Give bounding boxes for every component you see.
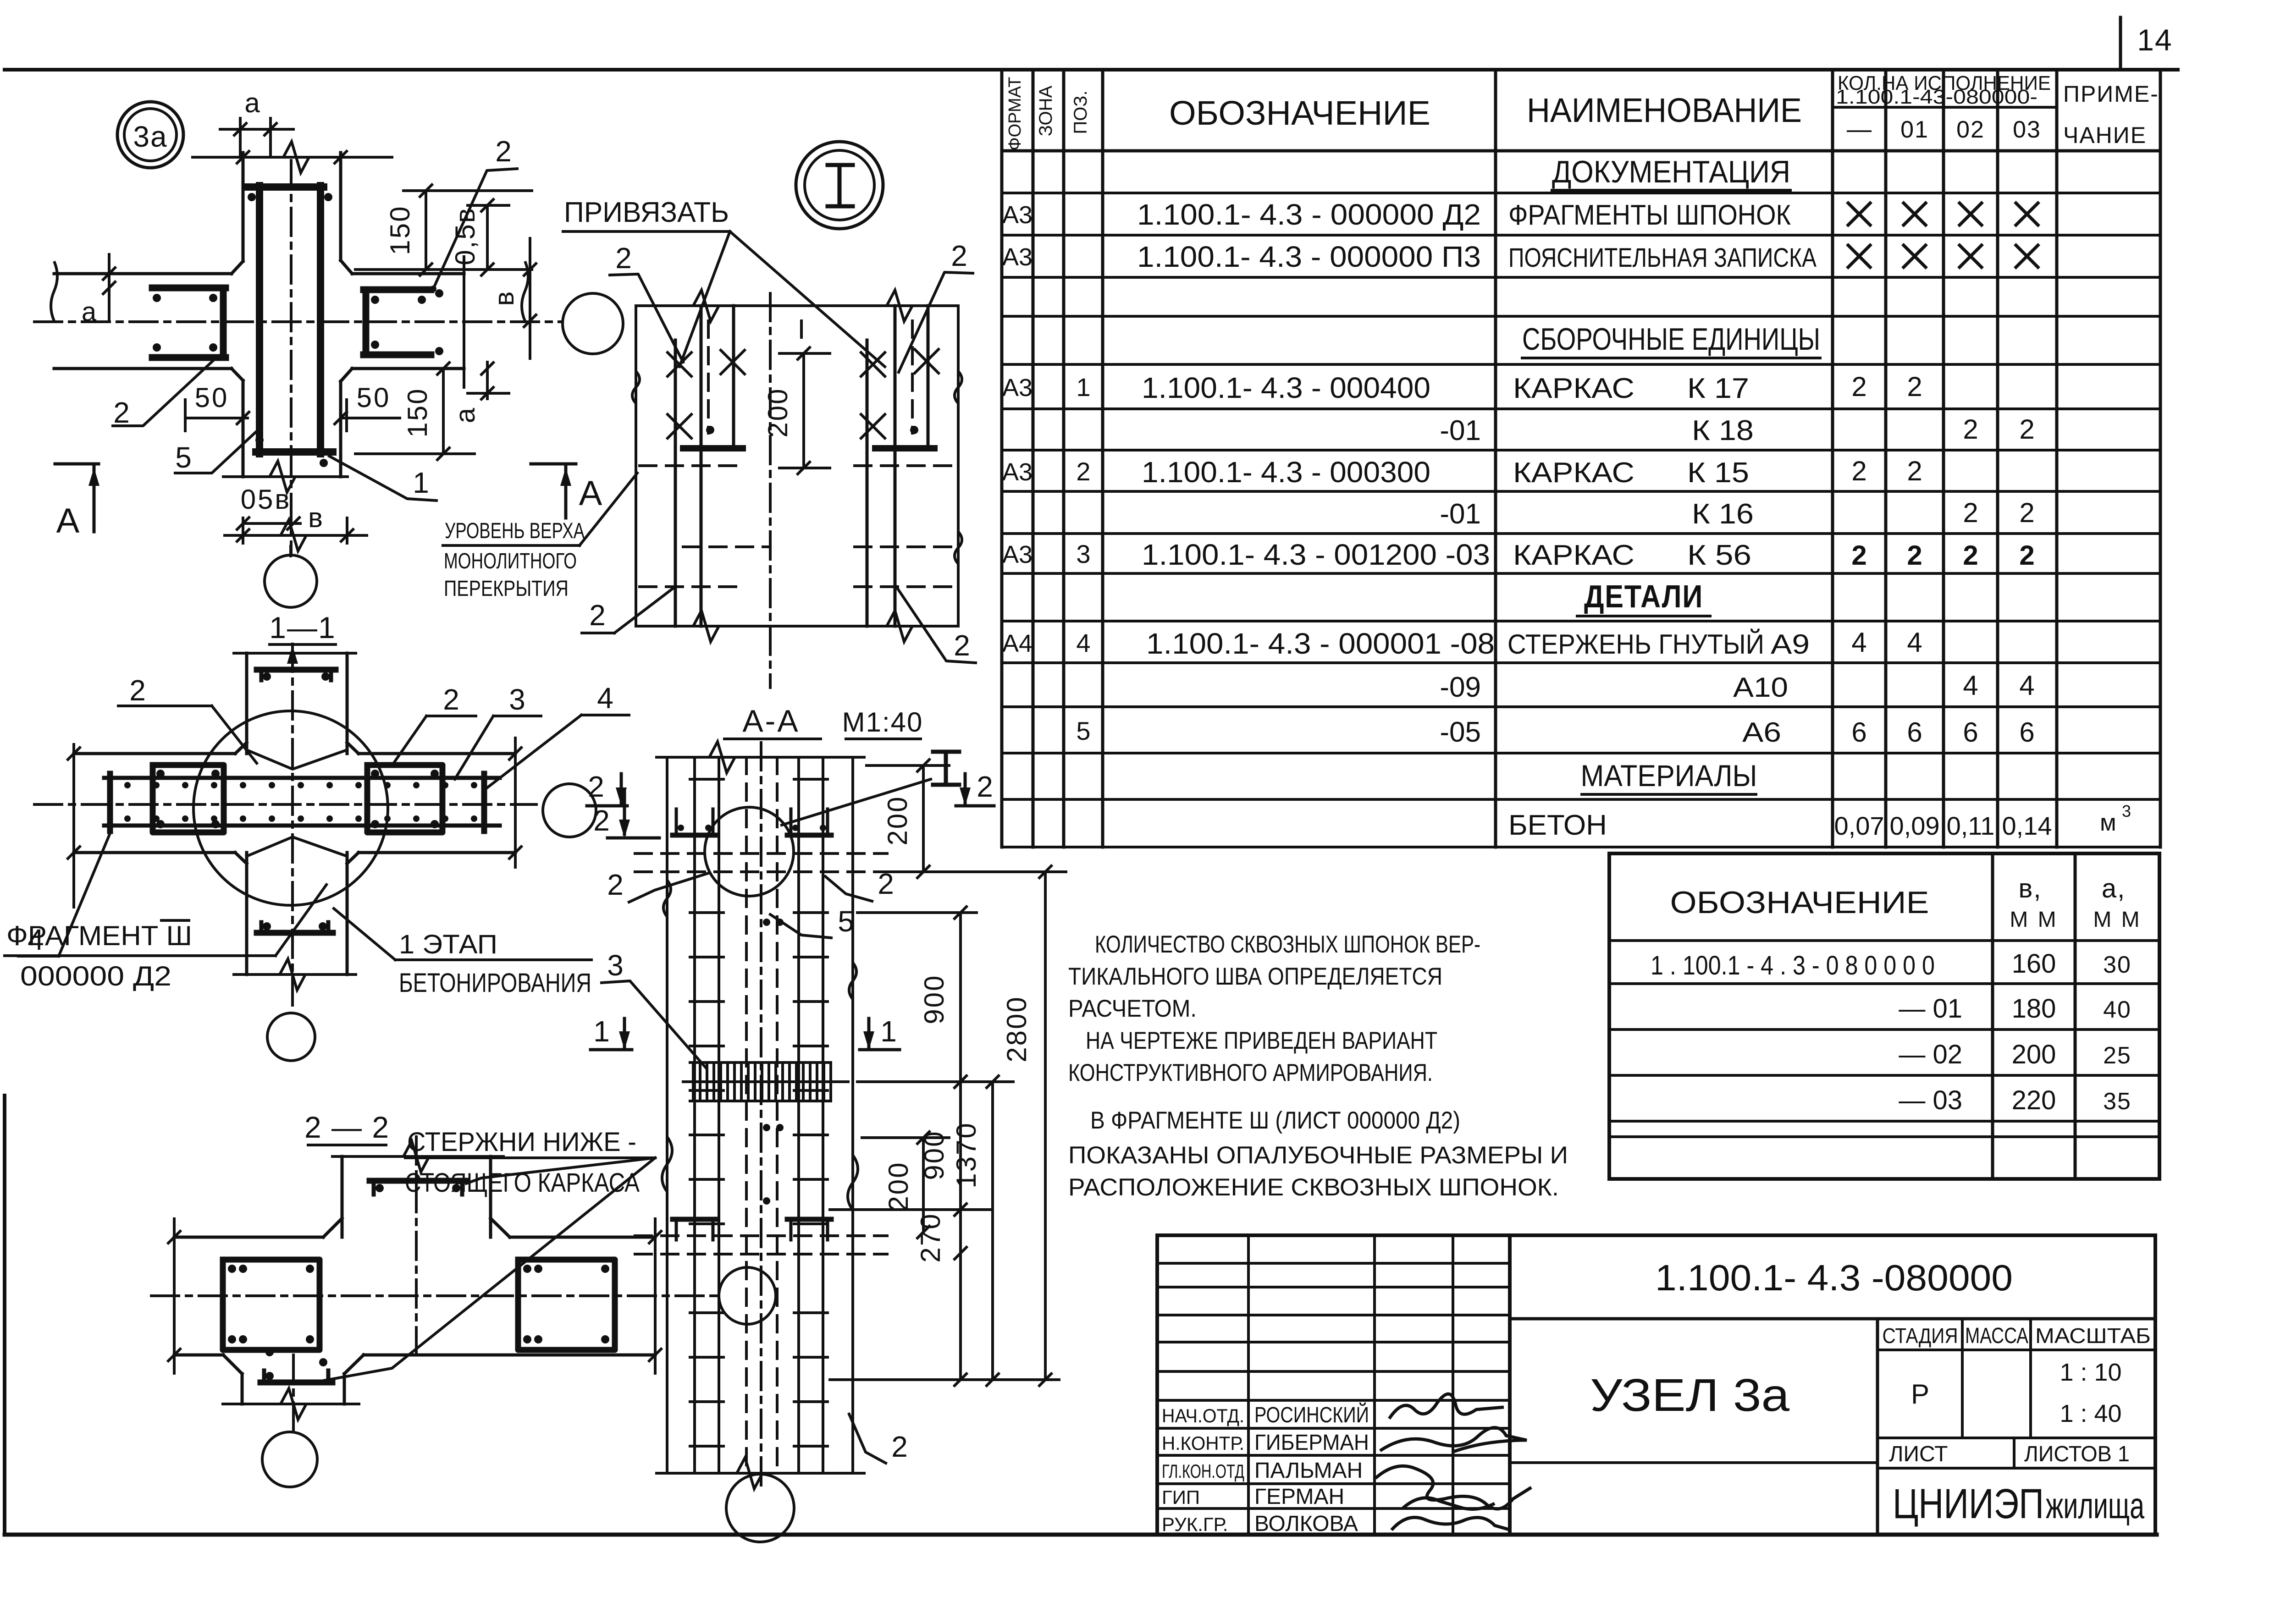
svg-text:6: 6 — [2019, 717, 2034, 748]
section 1-1 title — [269, 611, 336, 644]
svg-text:2: 2 — [951, 239, 967, 272]
spec table section titles — [1522, 154, 1820, 794]
dimension a left wall — [82, 254, 115, 327]
svg-text:А3: А3 — [1002, 458, 1033, 486]
svg-text:2: 2 — [588, 770, 604, 803]
section 1-1 left stirrup — [153, 765, 224, 832]
label I with leader — [782, 752, 959, 825]
svg-text:2: 2 — [589, 599, 606, 632]
svg-text:ВОЛКОВА: ВОЛКОВА — [1254, 1512, 1358, 1536]
svg-text:0,14: 0,14 — [2002, 811, 2052, 840]
svg-text:А-А: А-А — [742, 704, 800, 738]
central wall edges — [223, 153, 352, 492]
svg-text:270: 270 — [915, 1212, 946, 1262]
A-A dimension 1370 — [951, 1076, 1013, 1386]
svg-text:200: 200 — [882, 795, 913, 845]
svg-text:2: 2 — [2019, 540, 2034, 571]
spec table row: poyasnitelnaya zapiska — [1002, 240, 2038, 273]
svg-text:МАСШТАБ: МАСШТАБ — [2035, 1324, 2151, 1348]
svg-text:ЦНИИЭП: ЦНИИЭП — [1893, 1481, 2044, 1527]
svg-text:1.100.1- 4.3 - 001200 -03: 1.100.1- 4.3 - 001200 -03 — [1142, 538, 1490, 571]
axis bubble below 1-1 — [267, 1013, 315, 1061]
svg-text:1: 1 — [593, 1015, 610, 1048]
svg-text:150: 150 — [402, 387, 433, 437]
svg-text:А3: А3 — [1002, 541, 1033, 568]
fragment I right rebar group — [855, 306, 956, 626]
section 2-2 left stirrup — [223, 1260, 320, 1350]
svg-text:СБОРОЧНЫЕ ЕДИНИЦЫ: СБОРОЧНЫЕ ЕДИНИЦЫ — [1522, 322, 1820, 357]
svg-text:МОНОЛИТНОГО: МОНОЛИТНОГО — [444, 549, 577, 573]
dimension v right — [489, 238, 536, 358]
svg-text:2: 2 — [1907, 456, 1922, 486]
svg-text:2: 2 — [129, 674, 146, 707]
section mark 1 left of A-A — [591, 1015, 632, 1050]
svg-text:К 16: К 16 — [1692, 498, 1754, 530]
svg-text:Р: Р — [1911, 1379, 1929, 1409]
svg-text:3: 3 — [2122, 802, 2131, 820]
svg-text:1.100.1-43-080000-: 1.100.1-43-080000- — [1836, 86, 2038, 108]
svg-text:4: 4 — [2019, 670, 2034, 701]
A-A label 2 bottom leader — [849, 1414, 908, 1463]
svg-text:А4: А4 — [1002, 630, 1033, 657]
svg-text:3а: 3а — [133, 120, 167, 153]
svg-text:— 01: — 01 — [1899, 994, 1962, 1024]
svg-text:200: 200 — [883, 1161, 914, 1211]
svg-text:ОБОЗНАЧЕНИЕ: ОБОЗНАЧЕНИЕ — [1670, 885, 1929, 920]
sheet left border — [3, 1096, 6, 1535]
svg-text:2: 2 — [1851, 371, 1866, 402]
svg-text:КАРКАС: КАРКАС — [1513, 373, 1634, 404]
A-A mid rebar dots — [763, 919, 784, 1205]
parameter table row -02 — [1899, 1040, 2131, 1069]
svg-text:А3: А3 — [1002, 201, 1033, 229]
svg-text:А10: А10 — [1733, 672, 1788, 703]
svg-text:1—1: 1—1 — [269, 611, 336, 644]
svg-text:40: 40 — [2103, 996, 2131, 1023]
spec table grid — [1002, 70, 2160, 847]
label privyazat — [563, 197, 885, 367]
svg-text:ЧАНИЕ: ЧАНИЕ — [2063, 122, 2147, 148]
svg-text:160: 160 — [2012, 949, 2056, 979]
svg-text:2: 2 — [607, 868, 624, 901]
node bubble 3a — [117, 102, 183, 168]
dimension 50 right — [335, 382, 400, 431]
A-A dimension 270 lower — [830, 1212, 1059, 1386]
section 2-2 lower wall — [223, 1374, 359, 1420]
svg-text:а,: а, — [2102, 874, 2126, 903]
svg-text:50: 50 — [357, 382, 391, 413]
svg-text:2: 2 — [2019, 497, 2034, 528]
note paragraph about keys — [1068, 931, 1568, 1201]
svg-text:К 15: К 15 — [1687, 457, 1749, 489]
svg-text:05в: 05в — [241, 484, 292, 515]
A-A dimension 900 upper — [857, 907, 977, 1088]
svg-text:КАРКАС: КАРКАС — [1513, 457, 1634, 489]
svg-text:СТЕРЖЕНЬ ГНУТЫЙ: СТЕРЖЕНЬ ГНУТЫЙ — [1507, 629, 1764, 660]
axis bubble right — [563, 293, 623, 354]
svg-text:ФОРМАТ: ФОРМАТ — [1005, 77, 1025, 151]
A-A stirrup crossbars — [690, 779, 828, 1446]
section 2-2 title — [304, 1110, 390, 1145]
title block center-right grid — [1510, 1319, 2155, 1535]
svg-text:А: А — [56, 501, 80, 540]
dimension 0.5v right — [450, 199, 509, 275]
svg-text:1.100.1- 4.3 -080000: 1.100.1- 4.3 -080000 — [1655, 1257, 2013, 1298]
svg-text:5: 5 — [175, 441, 192, 474]
section 2-2 axes — [151, 1137, 718, 1431]
label 5 with leader — [175, 429, 260, 474]
svg-text:М1:40: М1:40 — [842, 707, 923, 738]
svg-text:-01: -01 — [1440, 415, 1481, 446]
section 1-1 axes — [34, 644, 536, 1011]
spec table row: A10 — [1440, 670, 2034, 703]
svg-text:в,: в, — [2019, 874, 2042, 903]
svg-text:150: 150 — [385, 205, 415, 255]
svg-text:0,11: 0,11 — [1947, 811, 1995, 840]
section 1-1 main bars — [104, 774, 500, 831]
A-A label 2 right upper — [825, 867, 894, 901]
section 2-2 right stirrup — [518, 1260, 615, 1350]
svg-text:в: в — [489, 290, 519, 306]
A-A dimension 2800 — [1001, 866, 1066, 1386]
parameter table row 080000 — [1651, 949, 2131, 980]
section 1-1 right stirrup — [367, 765, 442, 832]
svg-text:1370: 1370 — [951, 1122, 982, 1188]
svg-text:а: а — [450, 407, 480, 423]
sheet top border — [5, 68, 2178, 72]
svg-text:5: 5 — [838, 905, 854, 938]
svg-text:МАССА: МАССА — [1965, 1324, 2028, 1348]
svg-text:ПЕРЕКРЫТИЯ: ПЕРЕКРЫТИЯ — [444, 577, 569, 601]
svg-text:4: 4 — [1907, 627, 1922, 658]
section 2-2 upper cage — [370, 1181, 466, 1195]
svg-text:-05: -05 — [1440, 716, 1481, 748]
section A-A title — [724, 704, 923, 739]
svg-text:ДОКУМЕНТАЦИЯ: ДОКУМЕНТАЦИЯ — [1552, 154, 1790, 189]
svg-text:ГЕРМАН: ГЕРМАН — [1254, 1485, 1344, 1509]
axis bubble below A-A — [726, 1473, 794, 1542]
section 1-1 label 4 left — [18, 833, 110, 956]
spec table headers — [1005, 72, 2159, 150]
svg-text:жилища: жилища — [2046, 1485, 2144, 1526]
svg-text:А9: А9 — [1771, 629, 1810, 660]
svg-text:2: 2 — [954, 629, 970, 662]
dimension a top — [220, 88, 293, 156]
svg-text:К 18: К 18 — [1692, 415, 1754, 446]
svg-text:2: 2 — [1963, 414, 1978, 445]
spec table row: karkas K17 — [1002, 371, 1922, 404]
svg-text:ПРИМЕ-: ПРИМЕ- — [2063, 81, 2159, 107]
svg-text:РУК.ГР.: РУК.ГР. — [1162, 1514, 1228, 1535]
section mark 2 down right of 1-1 — [593, 789, 659, 838]
svg-text:25: 25 — [2103, 1042, 2131, 1069]
section 2-2 upper wall — [332, 1141, 503, 1237]
svg-text:2: 2 — [1963, 540, 1978, 571]
svg-text:01: 01 — [1900, 116, 1929, 143]
fragment I axis and slab dashes — [640, 293, 956, 688]
svg-text:РАСЧЕТОМ.: РАСЧЕТОМ. — [1068, 995, 1197, 1022]
dimension 058 bottom — [237, 484, 300, 529]
svg-text:СТАДИЯ: СТАДИЯ — [1883, 1324, 1958, 1348]
dimension 200 fragment I — [762, 347, 830, 474]
svg-text:-09: -09 — [1440, 672, 1481, 703]
svg-text:БЕТОН: БЕТОН — [1508, 809, 1607, 841]
svg-text:4: 4 — [1076, 628, 1090, 657]
parameter table row -01 — [1899, 994, 2131, 1024]
svg-text:4: 4 — [1963, 670, 1978, 701]
svg-text:6: 6 — [1851, 717, 1866, 748]
spec table row: A6 — [1076, 716, 2034, 748]
A-A dimension 200 top — [867, 760, 1064, 878]
fragment III circle — [193, 711, 388, 905]
svg-text:2: 2 — [891, 1430, 908, 1463]
svg-text:2: 2 — [615, 242, 632, 275]
svg-text:2: 2 — [1076, 457, 1090, 486]
svg-text:5: 5 — [1076, 716, 1090, 745]
spec table row: karkas K15 — [1002, 456, 1922, 489]
svg-text:НАИМЕНОВАНИЕ: НАИМЕНОВАНИЕ — [1527, 91, 1802, 129]
svg-text:а: а — [82, 297, 98, 327]
label 1 etap betonirovaniya — [334, 908, 591, 998]
svg-text:ПОЗ.: ПОЗ. — [1071, 90, 1091, 134]
title block stadia massa masshtab — [1883, 1324, 2151, 1427]
svg-text:6: 6 — [1907, 717, 1922, 748]
dimension v top with break — [193, 142, 392, 173]
section mark 2 top left of A-A — [587, 770, 627, 806]
svg-text:А6: А6 — [1742, 717, 1781, 748]
svg-text:в: в — [308, 502, 325, 533]
section 1-1 labels 2 3 4 top right — [392, 682, 629, 789]
title block list row — [1889, 1442, 2130, 1466]
section 1-1 horizontal wall — [68, 738, 521, 907]
svg-text:1: 1 — [413, 466, 429, 499]
svg-text:2: 2 — [1851, 540, 1866, 571]
svg-text:1 : 10: 1 : 10 — [2060, 1359, 2121, 1386]
section 1-1 top cage — [257, 670, 336, 681]
svg-text:МАТЕРИАЛЫ: МАТЕРИАЛЫ — [1581, 759, 1757, 793]
section mark A left — [55, 464, 99, 540]
svg-text:1.100.1- 4.3 - 000000 Д2: 1.100.1- 4.3 - 000000 Д2 — [1137, 198, 1481, 231]
fragment I left rebar group — [640, 306, 770, 626]
svg-text:ОБОЗНАЧЕНИЕ: ОБОЗНАЧЕНИЕ — [1169, 94, 1430, 132]
node bubble I — [796, 142, 883, 229]
label 1 with leader — [329, 456, 436, 501]
svg-text:А3: А3 — [1002, 243, 1033, 271]
A-A inner rebar verticals — [695, 743, 823, 1485]
label fragment III — [5, 885, 326, 991]
svg-text:2800: 2800 — [1001, 996, 1032, 1062]
svg-text:1 ЭТАП: 1 ЭТАП — [399, 930, 497, 959]
svg-text:0,09: 0,09 — [1890, 811, 1940, 840]
fragment I corner labels 2 — [582, 239, 976, 663]
A-A dimension 200 lower — [862, 1132, 949, 1238]
svg-text:35: 35 — [2103, 1088, 2131, 1115]
wall axis line — [34, 320, 563, 323]
label 2 top right with leader — [430, 135, 517, 292]
section 1-1 vertical wall upper — [234, 653, 356, 754]
spec table row: karkas K56 — [1002, 538, 2035, 571]
svg-text:К 17: К 17 — [1687, 373, 1749, 404]
dimension 150 bottom right — [355, 363, 475, 460]
svg-text:НАЧ.ОТД.: НАЧ.ОТД. — [1162, 1405, 1244, 1426]
svg-text:50: 50 — [195, 382, 229, 413]
svg-text:ПОКАЗАНЫ ОПАЛУБОЧНЫЕ РАЗМЕРЫ И: ПОКАЗАНЫ ОПАЛУБОЧНЫЕ РАЗМЕРЫ И — [1068, 1142, 1568, 1169]
signatures — [1375, 1394, 1531, 1530]
A-A dimension 900 lower — [830, 1082, 990, 1259]
svg-text:1.100.1- 4.3 - 000300: 1.100.1- 4.3 - 000300 — [1142, 456, 1430, 489]
A-A top joint hooks — [673, 809, 831, 835]
svg-text:м: м — [2100, 809, 2116, 836]
svg-text:КОНСТРУКТИВНОГО АРМИРОВАНИЯ.: КОНСТРУКТИВНОГО АРМИРОВАНИЯ. — [1068, 1059, 1433, 1086]
svg-text:а: а — [244, 88, 261, 118]
svg-text:КОЛИЧЕСТВО СКВОЗНЫХ ШПОНОК ВЕР: КОЛИЧЕСТВО СКВОЗНЫХ ШПОНОК ВЕР- — [1095, 931, 1480, 958]
title block outer — [1157, 1235, 2155, 1535]
svg-text:—: — — [1847, 116, 1872, 143]
svg-text:М М: М М — [2010, 908, 2058, 932]
svg-text:000000 Д2: 000000 Д2 — [20, 961, 171, 991]
spec table row: K16 — [1440, 497, 2034, 530]
svg-text:ЗОНА: ЗОНА — [1036, 85, 1056, 136]
dimension 150 top right — [355, 185, 532, 275]
A-A shponka hatch zone — [683, 1062, 848, 1101]
label sterzhni nizhestoyashchego karkasa — [323, 1127, 655, 1381]
svg-text:2: 2 — [1851, 456, 1866, 486]
svg-text:1 : 40: 1 : 40 — [2060, 1400, 2121, 1427]
page number tick — [2119, 17, 2122, 69]
svg-text:3: 3 — [1076, 539, 1090, 568]
svg-text:2: 2 — [2019, 414, 2034, 445]
axis bubble bottom of plan — [265, 546, 317, 607]
svg-text:ПАЛЬМАН: ПАЛЬМАН — [1254, 1459, 1363, 1483]
dimension 50 left — [185, 382, 249, 431]
parameter table grid — [1609, 853, 2159, 1179]
svg-text:УРОВЕНЬ ВЕРХА: УРОВЕНЬ ВЕРХА — [445, 519, 585, 543]
svg-text:ФРАГМЕНТ Ш: ФРАГМЕНТ Ш — [6, 920, 192, 951]
dimension v bottom — [225, 502, 367, 551]
spec table row: sterzhen gnutyi A9 — [1002, 627, 1922, 660]
svg-text:220: 220 — [2012, 1085, 2056, 1115]
parameter table row -03 — [1899, 1085, 2131, 1115]
svg-text:ГИП: ГИП — [1162, 1486, 1200, 1508]
svg-text:-01: -01 — [1440, 498, 1481, 530]
title block signature names — [1162, 1402, 1369, 1536]
svg-text:2: 2 — [113, 396, 130, 429]
svg-text:В ФРАГМЕНТЕ Ш (ЛИСТ 000000 Д2): В ФРАГМЕНТЕ Ш (ЛИСТ 000000 Д2) — [1090, 1107, 1460, 1134]
svg-text:БЕТОНИРОВАНИЯ: БЕТОНИРОВАНИЯ — [399, 968, 591, 998]
svg-text:1.100.1- 4.3 - 000001 -08: 1.100.1- 4.3 - 000001 -08 — [1146, 627, 1495, 660]
svg-text:03: 03 — [2013, 116, 2041, 143]
svg-text:2: 2 — [1907, 540, 1922, 571]
svg-text:2 — 2: 2 — 2 — [304, 1110, 390, 1144]
svg-text:А: А — [579, 474, 602, 513]
svg-text:А3: А3 — [1002, 374, 1033, 402]
svg-text:К 56: К 56 — [1687, 539, 1751, 571]
section 1-1 bottom cage — [257, 922, 333, 933]
svg-text:3: 3 — [509, 683, 525, 716]
svg-text:РАСПОЛОЖЕНИЕ СКВОЗНЫХ ШПОНОК.: РАСПОЛОЖЕНИЕ СКВОЗНЫХ ШПОНОК. — [1068, 1174, 1559, 1201]
title block signature grid — [1157, 1235, 1510, 1535]
left wall edges — [51, 261, 232, 369]
section mark 1 right of A-A — [860, 1015, 900, 1050]
label 2 left wall leader — [113, 358, 215, 429]
svg-text:14: 14 — [2137, 23, 2172, 57]
A-A label 2 left upper — [607, 868, 708, 902]
svg-text:ЛИСТ: ЛИСТ — [1889, 1442, 1948, 1466]
svg-text:ФРАГМЕНТЫ ШПОНОК: ФРАГМЕНТЫ ШПОНОК — [1508, 199, 1791, 231]
svg-text:ПОЯСНИТЕЛЬНАЯ ЗАПИСКА: ПОЯСНИТЕЛЬНАЯ ЗАПИСКА — [1508, 243, 1817, 273]
svg-text:СТЕРЖНИ НИЖЕ -: СТЕРЖНИ НИЖЕ - — [407, 1127, 636, 1157]
node I circle on A-A — [705, 807, 794, 896]
svg-text:2: 2 — [1907, 371, 1922, 402]
svg-text:2: 2 — [977, 770, 993, 803]
svg-text:ГЛ.КОН.ОТД: ГЛ.КОН.ОТД — [1162, 1460, 1244, 1482]
svg-text:2: 2 — [443, 683, 459, 716]
svg-text:900: 900 — [919, 974, 950, 1024]
svg-text:4: 4 — [597, 682, 613, 715]
svg-text:ДЕТАЛИ: ДЕТАЛИ — [1584, 578, 1703, 614]
svg-text:0,07: 0,07 — [1834, 811, 1884, 840]
spec table row: K18 — [1440, 414, 2034, 446]
svg-text:1 . 100.1 - 4 . 3 - 0 8 0 0 0: 1 . 100.1 - 4 . 3 - 0 8 0 0 0 0 — [1651, 951, 1935, 980]
svg-text:180: 180 — [2012, 994, 2056, 1024]
A-A bottom slab dashed band — [635, 1236, 887, 1254]
A-A top slab dashed band — [635, 853, 887, 872]
svg-text:6: 6 — [1963, 717, 1978, 748]
svg-text:4: 4 — [1851, 627, 1866, 658]
label uroven verkha — [443, 473, 637, 601]
section 1-1 label 2 left — [118, 674, 257, 763]
svg-text:ПРИВЯЗАТЬ: ПРИВЯЗАТЬ — [564, 197, 729, 228]
svg-text:— 02: — 02 — [1899, 1040, 1962, 1069]
svg-text:КАРКАС: КАРКАС — [1513, 539, 1634, 571]
svg-text:ЛИСТОВ 1: ЛИСТОВ 1 — [2024, 1442, 2130, 1466]
svg-text:200: 200 — [762, 387, 793, 437]
section 1-1 vertical wall lower — [234, 853, 356, 990]
svg-text:1: 1 — [1076, 373, 1090, 402]
A-A label 3 leader — [602, 949, 706, 1068]
svg-text:2: 2 — [1963, 497, 1978, 528]
svg-text:РОСИНСКИЙ: РОСИНСКИЙ — [1254, 1402, 1369, 1427]
section mark 2 top right of A-A — [956, 770, 994, 806]
section 2-2 lower cage — [260, 1348, 332, 1382]
svg-text:УЗЕЛ 3а: УЗЕЛ 3а — [1590, 1370, 1789, 1421]
right wall edges — [352, 257, 528, 387]
axis bubble right of 2-2 — [719, 1267, 776, 1324]
title block organization — [1893, 1481, 2144, 1527]
axis bubble right of 1-1 — [543, 784, 596, 837]
svg-text:ТИКАЛЬНОГО ШВА ОПРЕДЕЛЯЕТСЯ: ТИКАЛЬНОГО ШВА ОПРЕДЕЛЯЕТСЯ — [1068, 963, 1442, 990]
svg-text:НА ЧЕРТЕЖЕ ПРИВЕДЕН ВАРИАНТ: НА ЧЕРТЕЖЕ ПРИВЕДЕН ВАРИАНТ — [1086, 1027, 1437, 1054]
svg-text:200: 200 — [2012, 1040, 2056, 1069]
svg-text:3: 3 — [607, 949, 624, 982]
parameter table header — [1670, 874, 2142, 932]
svg-text:1.100.1- 4.3 - 000000 П3: 1.100.1- 4.3 - 000000 П3 — [1137, 240, 1481, 273]
svg-text:Н.КОНТР.: Н.КОНТР. — [1162, 1432, 1244, 1454]
right wall stirrup — [364, 289, 443, 355]
dimension a right lower — [450, 362, 509, 423]
svg-text:— 03: — 03 — [1899, 1085, 1962, 1115]
section mark A right — [531, 464, 602, 518]
central wall rebar cage — [248, 160, 333, 552]
spec table row: beton — [1508, 802, 2131, 841]
A-A label 5 leader — [770, 905, 854, 938]
left wall stirrup — [152, 288, 226, 358]
A-A column edges — [657, 742, 864, 1489]
svg-text:02: 02 — [1956, 116, 1985, 143]
svg-text:1: 1 — [880, 1015, 897, 1048]
svg-text:М М: М М — [2093, 908, 2141, 932]
fragment I box — [632, 290, 962, 642]
